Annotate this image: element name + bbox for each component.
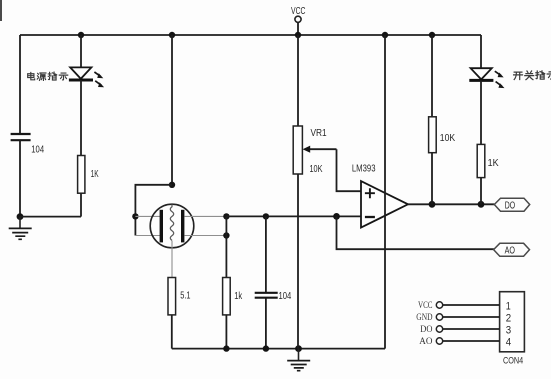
wire capacitor to ground node — [19, 140, 21, 216]
wire gray lower-right from sensor — [184, 235, 226, 237]
resistor R 1K (left) — [78, 156, 99, 194]
sensor left electrode bar — [160, 210, 163, 243]
wire VCC junction down to VR1 — [297, 35, 299, 126]
wire 1K bottom to output row — [480, 178, 482, 205]
wire tying right electrode pins — [225, 216, 227, 235]
wire lower electrode to 1k resistor — [225, 236, 227, 278]
op-amp U1 LM393 — [352, 162, 408, 227]
resistor R 10K (right) — [429, 117, 456, 153]
node junction on rail x=298 — [295, 32, 301, 38]
wire wiper to non-inverting input — [337, 149, 362, 191]
svg-text:DO: DO — [420, 325, 432, 335]
sensor right electrode bar — [181, 210, 184, 243]
wire rail to 10K resistor — [431, 35, 433, 117]
node output x=432 — [429, 201, 436, 208]
potentiometer VR1 body — [293, 126, 327, 175]
wire ground node to 1K resistor bottom — [20, 216, 81, 218]
label 开关指示 — [514, 71, 551, 80]
svg-text:AO: AO — [419, 337, 432, 347]
gas sensor MQ (circle) — [150, 204, 194, 248]
wire LED2 to 1K resistor — [480, 80, 482, 144]
wire AO from inverting node down and right — [337, 216, 495, 249]
connector CON4 body — [500, 292, 525, 352]
svg-text:AO: AO — [505, 246, 516, 257]
capacitor 104 (top-left) — [11, 134, 45, 156]
svg-text:4: 4 — [506, 336, 511, 348]
node output x=481 — [478, 201, 485, 208]
node junction on rail x=81 — [78, 32, 84, 38]
svg-text:VCC: VCC — [418, 301, 433, 311]
ground (bottom) — [287, 349, 310, 371]
node bottom row x=226 — [223, 345, 229, 351]
svg-text:LM393: LM393 — [352, 162, 376, 174]
pin 2 — [436, 312, 511, 324]
wire op-amp power vertical — [384, 35, 386, 349]
ground (left) — [9, 217, 32, 240]
node right electrode upper junction — [223, 213, 229, 219]
wire rail down to sensor node — [171, 35, 173, 185]
resistor R 1k (bottom) — [223, 278, 243, 315]
wire cap branch down — [265, 216, 267, 292]
wire rail corner down to LED2 — [480, 35, 482, 68]
pin 4 — [436, 336, 511, 348]
LED D2 switch indicator — [469, 68, 504, 88]
node junction on rail x=385 — [382, 32, 388, 38]
node cap-104 branch junction — [263, 213, 269, 219]
wire cap bottom to ground row — [265, 298, 267, 348]
wire sensor top to left electrode column — [135, 185, 172, 236]
wire gray heater bottom to 5.1 resistor — [171, 241, 173, 278]
resistor R 1K (right) — [477, 144, 498, 177]
wire gray upper-right from sensor — [184, 215, 226, 217]
wire op-amp output row — [408, 203, 494, 205]
wire top VCC rail — [20, 34, 481, 36]
wire VR1 bottom to ground row — [297, 174, 299, 349]
node ground-left junction — [17, 213, 24, 220]
wire inverting input row — [226, 215, 361, 217]
node junction on rail x=172 — [169, 32, 175, 38]
svg-text:VCC: VCC — [291, 5, 306, 17]
node AO branch junction — [333, 213, 340, 220]
node bottom row ground junction — [295, 345, 302, 352]
VR1 wiper arrow — [303, 146, 337, 153]
node junction on rail x=432 — [429, 32, 435, 38]
wire gray lower-left into sensor — [135, 235, 160, 237]
node right electrode lower junction — [223, 232, 229, 238]
svg-text:VR1: VR1 — [311, 127, 327, 139]
wire 5.1 bottom to ground row — [171, 315, 173, 349]
wire LED1 to resistor 1K — [80, 80, 82, 156]
svg-text:2: 2 — [506, 312, 511, 324]
wire left rail down to capacitor — [19, 35, 21, 134]
node bottom row x=266 — [263, 345, 269, 351]
svg-text:104: 104 — [31, 144, 44, 156]
LED D1 power indicator — [69, 67, 104, 87]
port tag AO — [494, 243, 530, 256]
wire gray upper-left into sensor — [135, 215, 160, 217]
svg-text:1: 1 — [506, 300, 511, 312]
svg-text:10K: 10K — [440, 132, 455, 144]
wire 10K bottom to output row — [431, 153, 433, 205]
svg-text:10K: 10K — [310, 163, 323, 175]
pin 1 — [436, 300, 511, 312]
port tag DO — [494, 198, 529, 211]
wire rail to LED1 — [80, 35, 82, 67]
label 电源指示 — [28, 72, 68, 80]
svg-text:CON4: CON4 — [503, 356, 523, 366]
svg-text:DO: DO — [505, 200, 516, 211]
svg-text:104: 104 — [279, 290, 292, 302]
wire 1k bottom to ground row — [225, 315, 227, 349]
capacitor 104 (bottom) — [255, 290, 292, 302]
wire 1K bottom to ground row — [80, 193, 82, 216]
svg-text:1K: 1K — [91, 168, 99, 180]
sensor heater coil — [170, 204, 173, 240]
svg-text:3: 3 — [506, 324, 511, 336]
svg-text:5.1: 5.1 — [180, 289, 190, 301]
node left electrode junction — [132, 213, 138, 219]
wire bottom ground row — [172, 348, 385, 350]
svg-text:1K: 1K — [488, 157, 499, 169]
resistor R 5.1 — [168, 278, 191, 315]
pin 3 — [436, 324, 511, 336]
svg-text:GND: GND — [416, 313, 432, 323]
svg-text:1k: 1k — [234, 290, 243, 302]
node sensor-top junction — [169, 182, 175, 188]
power flag VCC — [291, 5, 306, 35]
